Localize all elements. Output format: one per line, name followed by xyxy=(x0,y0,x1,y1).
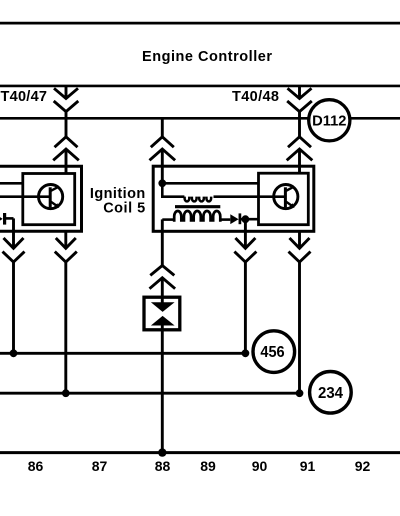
component box: right output stage inner box xyxy=(259,173,309,225)
wire: left collector lead from image edge to inner box xyxy=(0,182,23,185)
node 234: wiring junction circle xyxy=(310,372,352,414)
svg-text:T40/47: T40/47 xyxy=(1,89,48,105)
wire: spark plug wire from coil secondary down xyxy=(161,219,164,265)
component box: left output stage inner box xyxy=(23,174,75,225)
svg-text:92: 92 xyxy=(355,458,371,474)
connector: double chevron down on left emitter wire xyxy=(55,238,77,262)
connector: double chevron down on left spark wire xyxy=(3,238,25,262)
wire: bus 2 horizontal xyxy=(0,392,300,395)
node: junction dot bus1 / left spark wire xyxy=(10,349,18,357)
node: junction dot bus1 right end xyxy=(242,349,250,357)
svg-text:Engine Controller: Engine Controller xyxy=(142,49,272,65)
inductor: secondary winding (large coil) xyxy=(162,211,230,222)
transistor Q2: right output stage transistor xyxy=(274,185,298,209)
svg-text:90: 90 xyxy=(252,458,268,474)
wire: diode wire to bus 1 end xyxy=(244,262,247,353)
wire: left box emitter wire down through box bottom xyxy=(64,231,67,248)
node: junction dot bus2 / left emitter wire xyxy=(62,389,70,397)
connector: double chevron down on right emitter wire xyxy=(289,238,311,262)
wire: controller lower edge bus (pin row top) xyxy=(0,85,400,88)
svg-text:Coil 5: Coil 5 xyxy=(103,200,145,216)
transistor Q1: left output stage transistor xyxy=(39,185,63,209)
svg-text:456: 456 xyxy=(260,344,284,361)
wire: primary winding to transistor base xyxy=(214,195,286,198)
wire: left base lead from image edge to transistor base xyxy=(0,195,50,198)
wire: right box emitter wire down through box bottom xyxy=(298,231,301,248)
svg-text:234: 234 xyxy=(318,385,343,402)
wire: diode junction down through box bottom xyxy=(244,219,247,248)
node 456: wiring junction circle xyxy=(253,331,295,373)
svg-text:91: 91 xyxy=(300,458,316,474)
connector: double chevron up on wire to coil center tap (x=162.3) xyxy=(150,118,176,183)
node: diode output junction dot xyxy=(242,215,250,223)
wire: left spark wire to bus 1 xyxy=(12,262,15,353)
wire: collector lead from junction to inner box xyxy=(162,182,258,185)
wire: top border line of engine controller box xyxy=(0,22,400,25)
node: supply junction dot in coil box xyxy=(158,179,166,187)
diode D1: secondary suppression diode xyxy=(230,213,258,224)
core: transformer core bar xyxy=(175,205,220,208)
connector: double chevron up above spark plug xyxy=(150,266,176,304)
svg-text:87: 87 xyxy=(92,458,108,474)
node: junction dot bus2 right end xyxy=(296,389,304,397)
connector: in-line plug (arrow and socket bar) on left spark wire xyxy=(0,213,14,225)
wire: main horizontal bus below pin row xyxy=(0,117,400,120)
inductor: primary winding (small coil) xyxy=(185,197,212,202)
node D112: wiring junction circle on bus xyxy=(309,100,350,141)
wire: spark plug to ground rail xyxy=(161,326,164,453)
svg-text:89: 89 xyxy=(200,458,216,474)
wire: right emitter wire to bus 2 end xyxy=(298,262,301,393)
svg-text:T40/48: T40/48 xyxy=(232,89,279,105)
connector: double chevron down on diode wire xyxy=(234,238,256,262)
svg-text:86: 86 xyxy=(28,458,44,474)
wire: bottom ground rail xyxy=(0,451,400,454)
wire: left emitter wire to bus 2 xyxy=(64,262,67,393)
wire: left spark wire down through box bottom xyxy=(12,218,15,248)
svg-text:D112: D112 xyxy=(312,113,346,130)
wire: junction down and right to primary winding xyxy=(162,183,184,196)
svg-text:88: 88 xyxy=(155,458,171,474)
component box: ignition coil 5 assembly xyxy=(153,166,314,231)
component box: left ignition coil assembly (cut off at left edge) xyxy=(0,166,82,231)
connector pin T40/47: double chevron down at x=66 xyxy=(54,87,79,119)
connector: double chevron up on wire to left coil box (x=66) xyxy=(53,118,79,173)
connector: double chevron up on wire to right coil box (x=299.5) xyxy=(287,118,313,173)
wire: bus 1 horizontal xyxy=(0,352,245,355)
connector pin T40/48: double chevron down at x=299.5 xyxy=(287,87,312,119)
node: junction dot on ground rail xyxy=(158,448,166,456)
spark plug P: spark gap symbol box xyxy=(144,297,180,330)
